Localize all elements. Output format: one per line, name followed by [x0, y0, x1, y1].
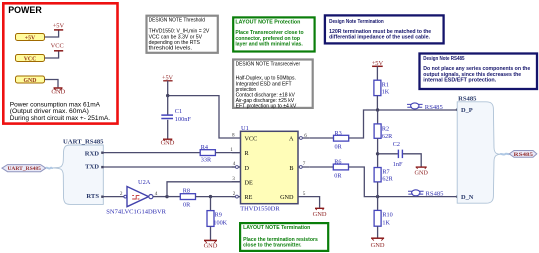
wire R9 to ground: [210, 226, 212, 240]
svg-text:(Output driver max. 60mA): (Output driver max. 60mA): [10, 108, 89, 115]
svg-text:EFT protection up to ±4 kV: EFT protection up to ±4 kV: [236, 103, 297, 109]
power symbol +5V (R1): [372, 60, 384, 80]
node RTS harness entry: [101, 196, 103, 198]
port VCC: [16, 55, 45, 63]
svg-text:A: A: [289, 135, 294, 142]
note DESIGN NOTE Transreceiver: [233, 60, 313, 110]
svg-text:DESIGN NOTE Transreceiver: DESIGN NOTE Transreceiver: [236, 62, 301, 68]
svg-text:Design Note RS485: Design Note RS485: [423, 56, 465, 62]
differential pair marker D_N: [408, 190, 424, 196]
svg-text:+5V: +5V: [53, 23, 65, 30]
svg-text:During short circuit max +- 25: During short circuit max +- 251mA.: [10, 115, 110, 122]
wire C2 to ground: [403, 154, 421, 167]
ground U1 pin 5: [313, 208, 327, 218]
svg-text:1K: 1K: [382, 88, 390, 95]
wire R3 to D_P line: [349, 110, 458, 138]
power symbol +5V (decoupling): [162, 74, 174, 95]
resistor R4: [200, 144, 215, 164]
resistor R10: [374, 210, 393, 226]
resistor R9: [207, 211, 228, 227]
resistor R8: [180, 188, 195, 209]
svg-text:POWER: POWER: [8, 5, 42, 16]
wire R6 to D_N line: [349, 167, 458, 197]
junction DE/RE: [165, 195, 168, 198]
wire TXD to U1 pin 4: [102, 166, 240, 168]
svg-text:GND: GND: [313, 211, 327, 218]
wire R8 to U1 pin 2: [196, 196, 241, 198]
svg-text:SN74LVC1G14DBVR: SN74LVC1G14DBVR: [106, 210, 167, 216]
svg-text:D_N: D_N: [461, 194, 474, 201]
svg-text:Design Note Termination: Design Note Termination: [329, 19, 384, 25]
port GND: [16, 76, 45, 84]
wire junction to C2: [378, 153, 398, 155]
junction C2: [376, 152, 379, 155]
ground below R10: [371, 238, 385, 249]
ground below R9: [204, 240, 218, 249]
note Design Note RS485: [420, 54, 538, 90]
node TXD harness entry: [101, 166, 103, 168]
svg-text:VCC: VCC: [51, 43, 64, 50]
resistor R1: [374, 80, 390, 95]
wire R1 to D_P junction: [376, 96, 378, 110]
node D_P harness entry: [456, 108, 459, 111]
svg-text:7: 7: [303, 161, 306, 167]
ground C2: [414, 167, 428, 177]
svg-text:1K: 1K: [382, 219, 390, 226]
node D_N harness entry: [456, 195, 459, 198]
POWER section frame: [3, 3, 117, 123]
svg-text:62R: 62R: [382, 133, 393, 140]
svg-text:DESIGN NOTE Threshold: DESIGN NOTE Threshold: [149, 18, 205, 24]
svg-text:close to the transmitter.: close to the transmitter.: [243, 242, 302, 248]
resistor R7: [374, 168, 393, 183]
pin stubs left: [232, 153, 241, 197]
svg-text:RXD: RXD: [85, 151, 100, 158]
wire port +5V to rail: [45, 30, 59, 37]
svg-text:RS485: RS485: [514, 152, 534, 158]
svg-text:RS485: RS485: [426, 191, 445, 198]
wire port VCC to rail: [45, 51, 59, 58]
svg-text:R9: R9: [215, 212, 222, 219]
svg-text:C1: C1: [175, 108, 182, 115]
svg-text:VCC: VCC: [24, 57, 37, 63]
note Design Note Termination: [325, 15, 444, 43]
ground below C1: [161, 139, 175, 146]
IC U1: [230, 125, 310, 212]
svg-text:GND: GND: [280, 194, 294, 201]
svg-text:100K: 100K: [213, 220, 227, 227]
svg-text:differential impedance of the: differential impedance of the used cable…: [329, 35, 430, 41]
wire DE riser: [167, 182, 241, 197]
svg-text:+5V: +5V: [25, 36, 36, 42]
svg-text:0R: 0R: [183, 202, 191, 209]
wire R2 to R7: [377, 138, 379, 167]
wire R10 to ground: [377, 226, 379, 238]
svg-text:LAYOUT NOTE Termination: LAYOUT NOTE Termination: [243, 225, 311, 231]
POWER note text: [10, 101, 110, 122]
svg-text:R3: R3: [335, 130, 342, 137]
pin stubs right: [298, 138, 310, 197]
junction D_N: [376, 195, 379, 198]
svg-text:LAYOUT NOTE Protection: LAYOUT NOTE Protection: [235, 19, 300, 25]
junction R9: [209, 195, 212, 198]
svg-text:R7: R7: [382, 169, 389, 176]
node RXD harness entry: [101, 152, 103, 154]
harness port UART_RS485: [2, 165, 46, 173]
wire RTS to U2A input: [102, 196, 124, 198]
wire U1 pin 5 to ground: [308, 197, 320, 208]
svg-text:33R: 33R: [201, 157, 212, 164]
svg-text:layer and with minimal vias.: layer and with minimal vias.: [235, 42, 303, 48]
svg-text:D_P: D_P: [461, 107, 473, 114]
svg-text:5: 5: [303, 191, 306, 197]
svg-text:GND: GND: [161, 140, 175, 147]
svg-text:RE: RE: [245, 194, 253, 201]
svg-text:R8: R8: [183, 188, 190, 195]
svg-text:3: 3: [232, 176, 235, 182]
svg-text:THVD1550DR: THVD1550DR: [240, 205, 280, 212]
svg-text:62R: 62R: [382, 176, 393, 183]
svg-text:B: B: [289, 165, 293, 172]
wire +5V to U1 VCC pin: [168, 96, 241, 138]
junction at C1 top: [166, 94, 169, 97]
harness cable left: [46, 167, 53, 170]
resistor R6: [333, 159, 348, 180]
svg-text:8: 8: [232, 133, 235, 139]
svg-text:100nF: 100nF: [175, 116, 192, 123]
svg-text:0R: 0R: [334, 172, 342, 179]
svg-text:RS485: RS485: [458, 96, 477, 103]
svg-text:R4: R4: [201, 144, 208, 151]
svg-text:GND: GND: [414, 170, 428, 177]
note LAYOUT NOTE Protection: [233, 17, 314, 51]
wire port GND to ground: [45, 80, 59, 88]
harness connector RS485: [457, 96, 500, 204]
wire R7 to D_N junction: [377, 182, 379, 211]
resistor R2: [374, 124, 393, 140]
svg-text:GND: GND: [371, 242, 385, 249]
wire junction to R9: [210, 197, 212, 211]
harness port RS485: [509, 151, 537, 159]
svg-text:1nF: 1nF: [393, 161, 403, 168]
wire U1 pin A to R3: [310, 137, 334, 139]
svg-text:6: 6: [304, 133, 307, 139]
pin decoration circles (D, RE, A, B): [236, 166, 239, 169]
svg-text:R10: R10: [382, 212, 392, 219]
svg-text:TXD: TXD: [85, 164, 99, 171]
svg-text:internal ESD/EFT protection.: internal ESD/EFT protection.: [423, 78, 496, 84]
inverter U2A: [106, 179, 167, 215]
svg-text:0R: 0R: [335, 143, 343, 150]
note DESIGN NOTE Threshold: [147, 16, 218, 53]
svg-text:UART_RS485: UART_RS485: [63, 138, 104, 145]
wire junction to R8: [167, 196, 180, 198]
differential pair marker D_P: [407, 103, 423, 109]
power symbol +5V (POWER box): [53, 23, 65, 30]
wire RXD to R4: [102, 152, 200, 154]
harness cable right: [500, 153, 509, 156]
junction D_P: [376, 108, 379, 111]
svg-text:U2A: U2A: [138, 179, 151, 186]
svg-text:VCC: VCC: [245, 135, 258, 142]
svg-text:2: 2: [120, 191, 123, 197]
svg-text:1: 1: [230, 147, 233, 153]
note LAYOUT NOTE Termination: [240, 223, 328, 251]
svg-text:DE: DE: [245, 180, 253, 187]
svg-text:RS485: RS485: [425, 104, 444, 111]
capacitor C2: [393, 141, 403, 168]
svg-text:GND: GND: [51, 89, 65, 96]
wire R4 to U1 pin 1: [215, 152, 240, 154]
capacitor C1: [161, 96, 191, 139]
svg-text:R6: R6: [334, 159, 341, 166]
svg-text:RTS: RTS: [86, 193, 99, 200]
wire U1 pin B to R6: [310, 166, 334, 168]
svg-text:D: D: [245, 165, 250, 172]
svg-text:R2: R2: [382, 126, 389, 133]
harness connector UART_RS485: [53, 138, 105, 204]
power symbol VCC (POWER box): [51, 43, 64, 51]
ground symbol (POWER box): [51, 88, 65, 96]
svg-text:threshold levels.: threshold levels.: [149, 46, 193, 52]
svg-text:C2: C2: [393, 141, 400, 148]
resistor R3: [334, 130, 349, 151]
wire U2A output to junction: [153, 196, 167, 198]
svg-text:GND: GND: [24, 78, 37, 84]
svg-text:GND: GND: [204, 243, 218, 250]
port +5V: [16, 34, 45, 42]
svg-text:UART_RS485: UART_RS485: [7, 166, 41, 172]
wire D_P junction to R2: [377, 110, 379, 124]
